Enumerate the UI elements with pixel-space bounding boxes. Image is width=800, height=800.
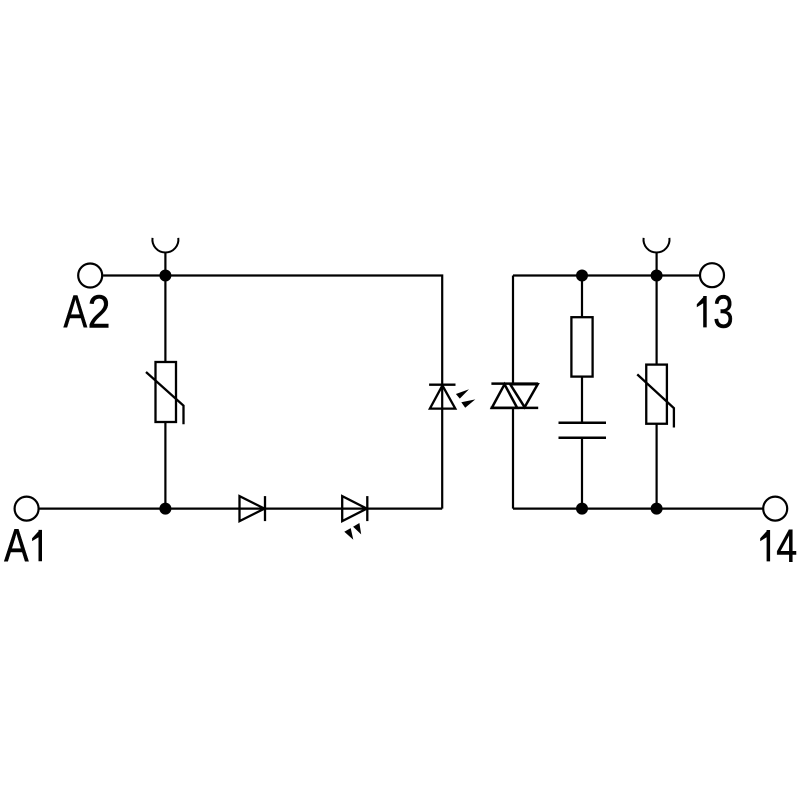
svg-text:A: A <box>64 286 88 337</box>
svg-text:2: 2 <box>88 287 111 338</box>
svg-text:3: 3 <box>713 285 733 337</box>
svg-text:4: 4 <box>776 520 797 571</box>
svg-text:A: A <box>4 519 29 571</box>
